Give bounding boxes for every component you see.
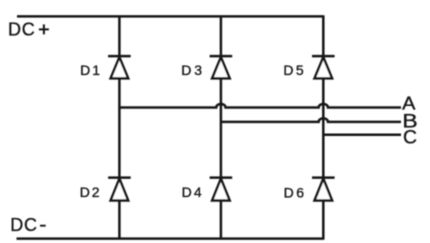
diode D1 <box>108 56 131 78</box>
svg-text:D4: D4 <box>182 184 202 200</box>
wire phase line C <box>323 133 401 136</box>
wire leg 1 top segment (rail to D1) <box>118 16 121 56</box>
wire leg 2 bottom segment (D4 to DC- rail) <box>220 201 223 239</box>
diode D3 <box>210 56 233 78</box>
label DC- <box>10 215 46 235</box>
wire phase line A (hops over legs 2 and 3) <box>119 104 401 108</box>
diode D4 <box>210 178 233 201</box>
wire leg 2 middle segment (D3 to D4 through node B) <box>220 78 223 177</box>
wire leg 2 top segment (rail to D3) <box>220 16 223 56</box>
diode D5 <box>312 56 335 78</box>
wire leg 1 middle segment (D1 to D2 through node A) <box>118 78 121 177</box>
wire leg 3 middle segment (D5 to D6 through node C) <box>322 78 325 177</box>
svg-text:C: C <box>403 127 417 148</box>
diode D2 <box>108 178 131 201</box>
label DC+ <box>8 20 49 40</box>
svg-text:D1: D1 <box>80 62 100 78</box>
wire DC+ top rail <box>17 15 323 18</box>
wire phase line B (hops over leg 3) <box>221 118 401 122</box>
wire DC- bottom rail <box>17 237 324 240</box>
svg-text:DC: DC <box>8 20 35 40</box>
wire leg 3 bottom segment (D6 to DC- rail) <box>322 201 325 240</box>
svg-text:D6: D6 <box>284 184 305 200</box>
svg-text:D5: D5 <box>283 62 304 78</box>
svg-text:D2: D2 <box>80 184 100 200</box>
svg-text:DC: DC <box>10 215 37 235</box>
wire leg 3 top segment (rail corner down to D5) <box>322 15 325 56</box>
svg-text:D3: D3 <box>181 62 202 78</box>
wire leg 1 bottom segment (D2 to DC- rail) <box>118 201 121 239</box>
diode D6 <box>312 178 335 201</box>
